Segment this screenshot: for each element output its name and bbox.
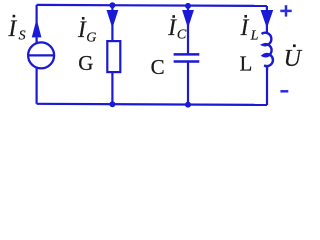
label U (voltage) [284,44,303,72]
node dot G top [109,2,115,8]
current source Is circle [28,42,54,68]
wire C branch top [187,6,189,54]
conductance G box [107,41,120,72]
wire L branch top [266,6,268,34]
svg-text:C: C [177,28,187,43]
wire L branch bottom [266,70,268,106]
svg-text:I: I [8,16,18,41]
node dot C bottom [185,102,191,108]
svg-text:L: L [240,53,253,76]
svg-text:I: I [167,15,177,40]
inductor L coil [262,33,273,70]
capacitor C plates [174,54,200,61]
node dot C top [185,3,191,9]
wire top rail [37,5,267,6]
label I_L [240,15,259,43]
current source arrow (up) [32,19,42,38]
wire G branch bottom [111,72,113,105]
wire C branch bottom [187,62,189,105]
svg-text:G: G [86,31,96,46]
svg-text:U: U [284,46,303,72]
label I_G [77,17,96,46]
svg-text:G: G [78,51,93,75]
svg-text:I: I [240,15,250,40]
plus polarity mark [280,5,291,16]
arrow current IL (down) [261,10,274,28]
arrow current IG (down) [107,10,119,28]
wire left branch top [35,5,37,44]
svg-text:C: C [151,55,165,79]
label I_S [8,15,26,44]
wire G branch top [111,5,113,41]
node dot G bottom [109,101,115,107]
wire left branch bottom [35,67,37,104]
arrow current IC (down) [182,10,194,28]
svg-text:L: L [250,28,259,43]
label I_C [167,15,187,43]
svg-text:S: S [19,29,26,44]
wire bottom rail [37,104,267,105]
minus polarity mark [280,90,288,93]
